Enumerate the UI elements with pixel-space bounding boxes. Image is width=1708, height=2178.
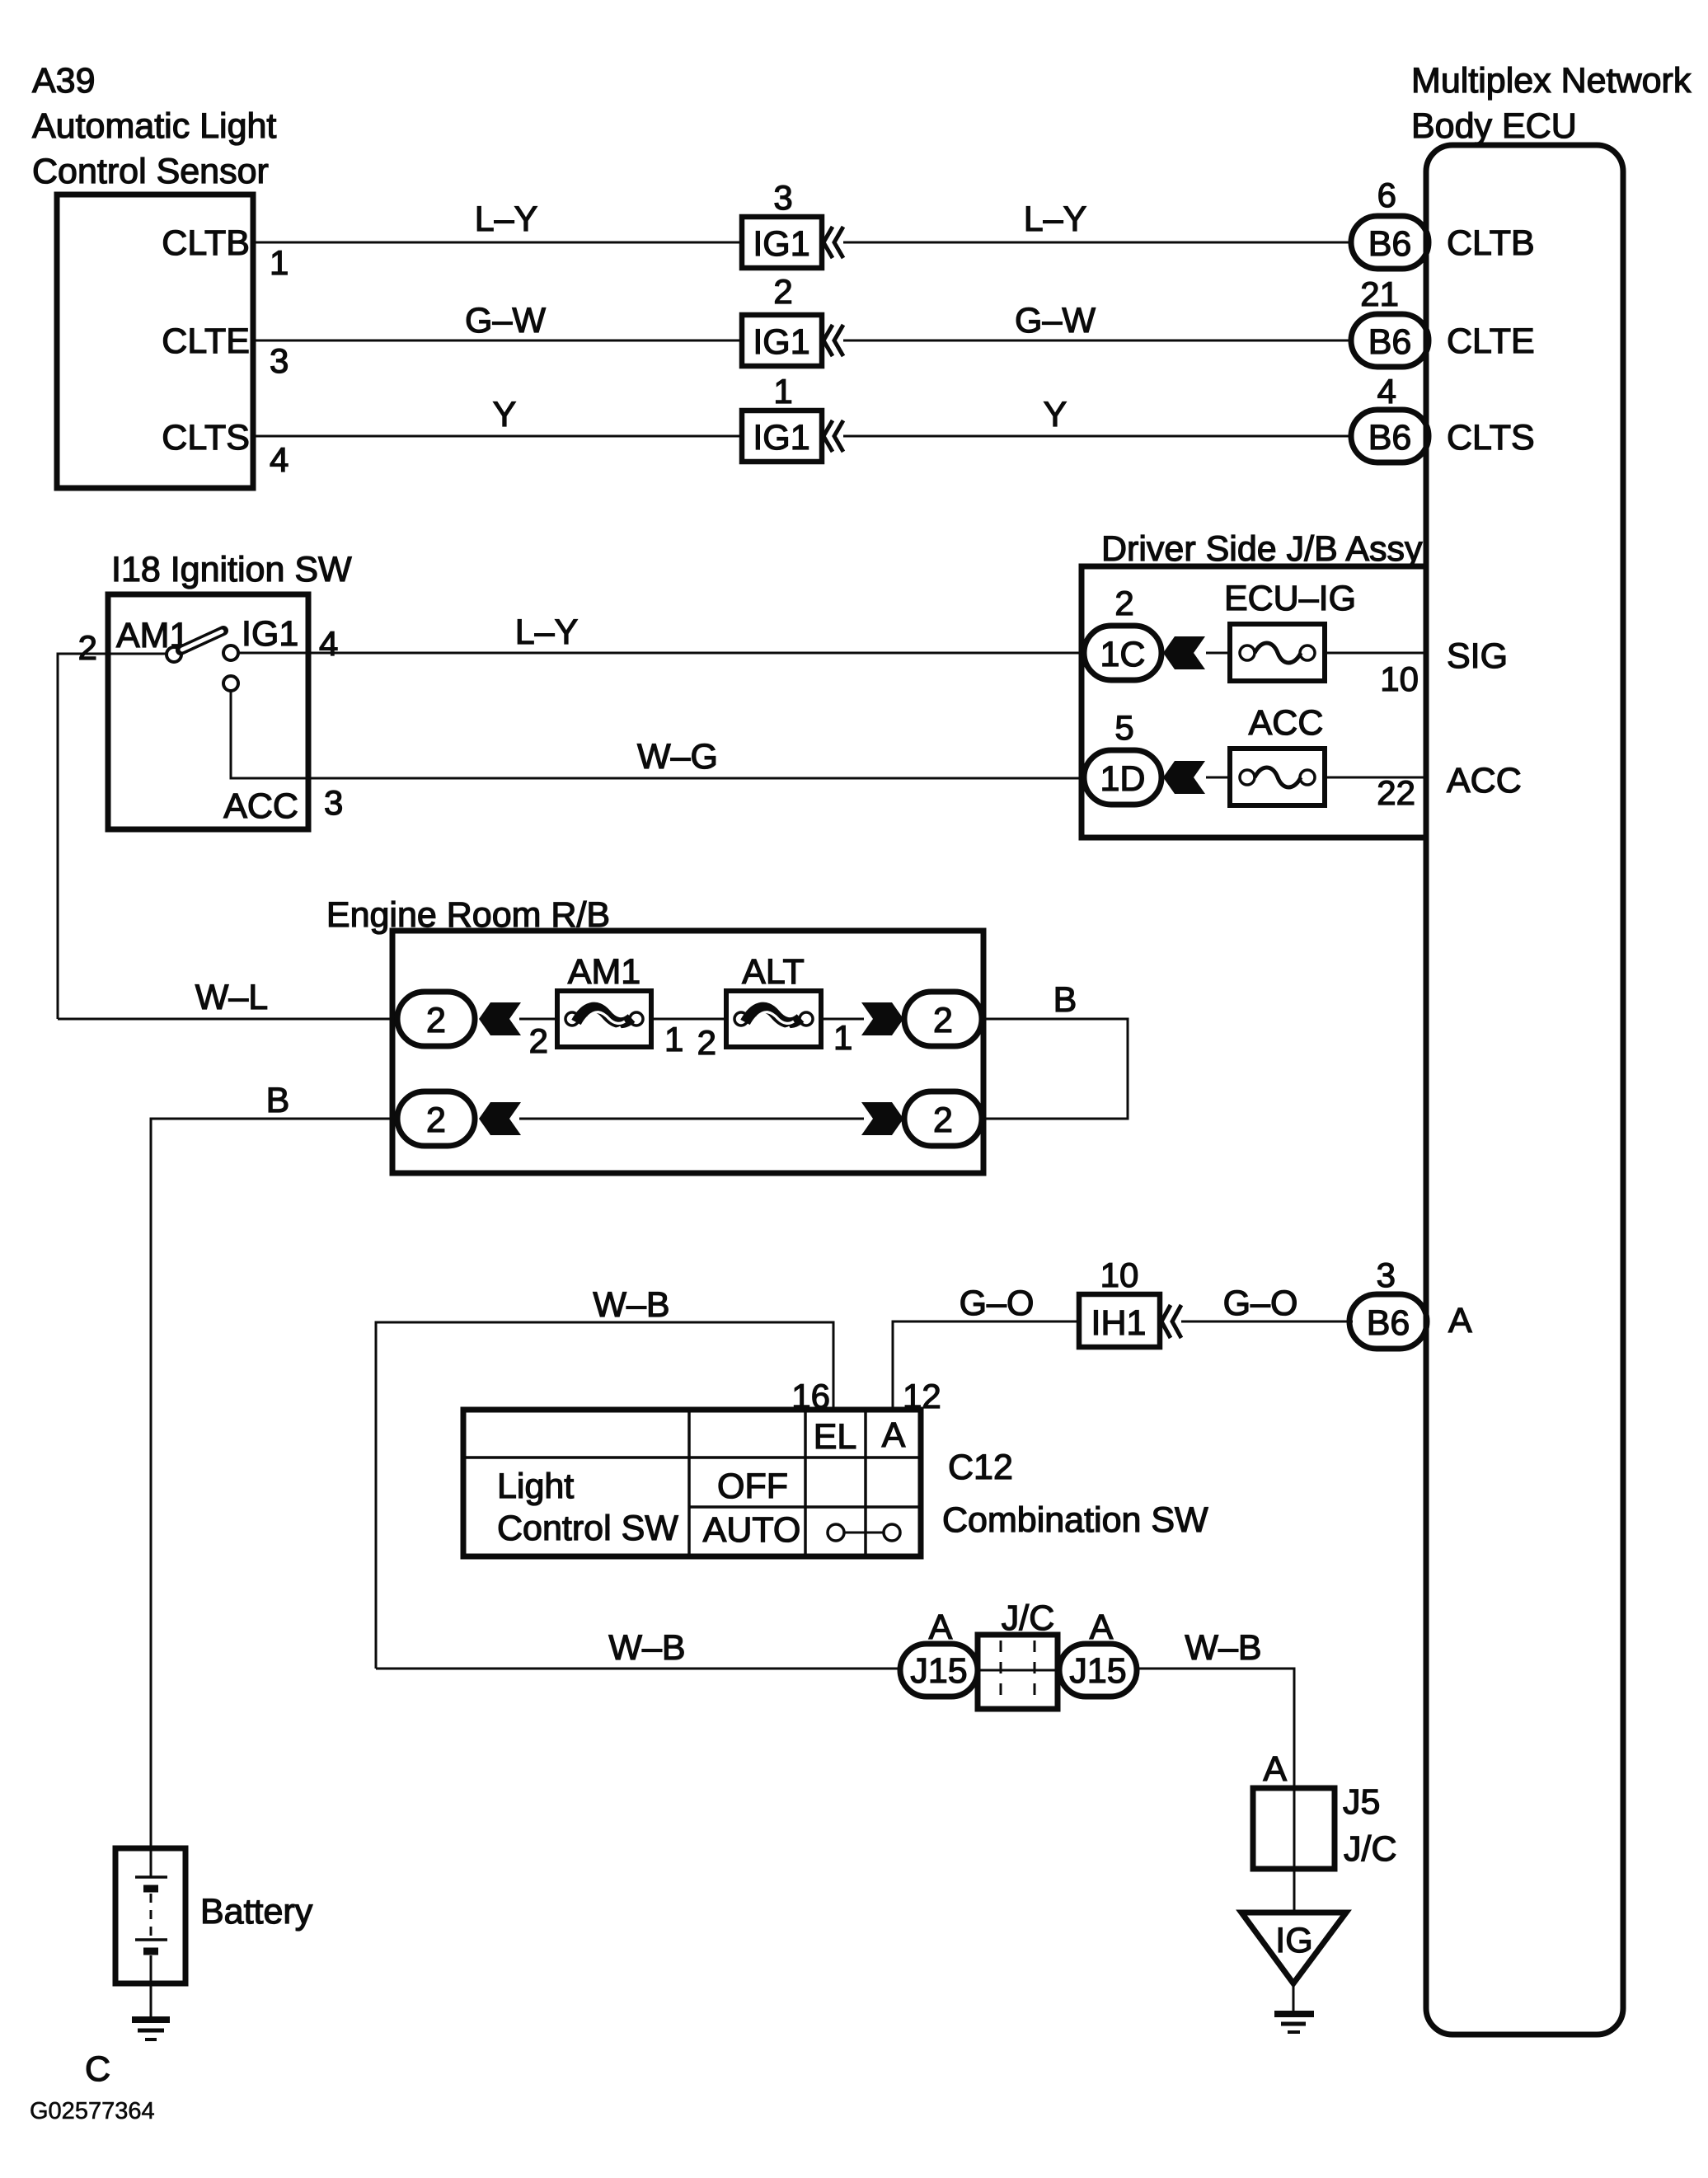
svg-text:2: 2 — [426, 1001, 446, 1040]
svg-text:G–W: G–W — [1015, 301, 1096, 340]
svg-text:2: 2 — [773, 272, 792, 311]
wire G-O from combination A to IH1 — [893, 1321, 1079, 1410]
arrow into 1C — [1163, 636, 1205, 669]
svg-text:J/C: J/C — [1344, 1829, 1397, 1869]
connector IH1 pin 10 — [1079, 1294, 1160, 1347]
switch lever — [181, 631, 223, 650]
arrow into left 2 row1 — [479, 1002, 521, 1035]
fuse ECU-IG — [1230, 624, 1325, 681]
svg-text:Light: Light — [497, 1467, 574, 1506]
svg-text:2: 2 — [1114, 584, 1133, 622]
footer figure number G02577364 — [30, 2098, 155, 2124]
wire fuse to ECU ACC pin 22 — [1325, 777, 1426, 779]
svg-text:4: 4 — [1377, 372, 1396, 411]
svg-text:CLTB: CLTB — [162, 223, 250, 263]
svg-text:Y: Y — [493, 395, 517, 434]
battery — [115, 1848, 185, 1983]
svg-text:L–Y: L–Y — [515, 613, 579, 652]
svg-text:2: 2 — [933, 1001, 953, 1040]
svg-text:IG1: IG1 — [242, 614, 298, 654]
svg-text:2: 2 — [933, 1101, 953, 1140]
ground triangle IG — [1241, 1913, 1346, 1983]
connector 2 row2 right — [904, 1091, 982, 1146]
svg-text:21: 21 — [1360, 275, 1399, 313]
svg-text:5: 5 — [1114, 708, 1133, 747]
wire ACC contact down and W-G to 1D — [231, 691, 1085, 778]
pin 16 and 12 labels — [791, 1377, 941, 1415]
wire row2 across R/B — [519, 1118, 864, 1120]
svg-text:Battery: Battery — [200, 1892, 313, 1932]
fuse ACC — [1230, 749, 1325, 805]
svg-text:3: 3 — [270, 341, 289, 380]
svg-text:W–G: W–G — [637, 737, 718, 777]
svg-text:ALT: ALT — [742, 952, 805, 992]
title block A39 Automatic Light Control Sensor — [32, 61, 276, 191]
wire W-B lower run to J15 — [376, 1668, 902, 1670]
svg-text:4: 4 — [270, 440, 289, 479]
wire AM1 to ALT — [651, 1018, 726, 1021]
svg-text:AUTO: AUTO — [703, 1510, 801, 1550]
svg-text:I18 Ignition SW: I18 Ignition SW — [111, 550, 352, 589]
wire W-B J15 to J5 — [1137, 1669, 1294, 1788]
footer C label — [85, 2049, 110, 2089]
svg-text:G–O: G–O — [1223, 1284, 1298, 1323]
svg-text:ECU–IG: ECU–IG — [1224, 579, 1356, 618]
svg-text:2: 2 — [529, 1021, 548, 1060]
svg-text:W–B: W–B — [608, 1628, 685, 1668]
svg-text:3: 3 — [1377, 1256, 1396, 1294]
connector B6 pin 3 A — [1349, 1294, 1427, 1349]
connector IG1 pin 3 — [742, 217, 822, 268]
connector 2 row2 left — [397, 1091, 475, 1146]
connector IG1 pin 1 — [742, 411, 822, 462]
svg-text:6: 6 — [1377, 176, 1396, 214]
fuse AM1 — [557, 991, 651, 1047]
svg-text:2: 2 — [426, 1101, 446, 1140]
svg-text:IG1: IG1 — [753, 418, 809, 458]
wire arrow to ACC fuse — [1206, 777, 1230, 779]
connector 1D pin 5 — [1084, 750, 1161, 805]
svg-text:G02577364: G02577364 — [30, 2098, 155, 2124]
svg-text:Y: Y — [1044, 395, 1067, 434]
switch contact IG1 — [223, 645, 238, 660]
switch contact ACC — [223, 676, 238, 691]
junction J/C dashed box — [978, 1635, 1058, 1709]
svg-text:ACC: ACC — [223, 786, 298, 826]
connector 1C pin 2 — [1084, 626, 1161, 680]
svg-text:Automatic Light: Automatic Light — [32, 106, 276, 146]
arrow into right 2 row2 — [861, 1102, 903, 1135]
Driver Side J/B Assy box — [1082, 566, 1426, 838]
svg-text:B: B — [1053, 980, 1077, 1020]
svg-text:CLTS: CLTS — [162, 418, 250, 458]
ground IG — [1274, 2011, 1314, 2017]
svg-text:IG1: IG1 — [753, 322, 809, 362]
arrow into right 2 row1 — [861, 1002, 903, 1035]
arrow into left 2 row2 — [479, 1102, 521, 1135]
svg-text:A: A — [1263, 1749, 1287, 1789]
svg-text:Driver Side J/B Assy: Driver Side J/B Assy — [1101, 529, 1423, 569]
svg-text:A: A — [1448, 1301, 1472, 1340]
wire W-L to Engine Room R/B — [58, 1018, 397, 1021]
svg-text:B6: B6 — [1368, 224, 1412, 264]
svg-text:2: 2 — [78, 628, 97, 667]
svg-text:A39: A39 — [32, 61, 96, 101]
Driver Side J/B Assy title — [1101, 529, 1423, 569]
svg-text:Control SW: Control SW — [497, 1509, 678, 1548]
wire CLTB L-Y left segment — [253, 242, 742, 244]
title Multiplex Network Body ECU — [1411, 61, 1692, 146]
svg-text:J15: J15 — [1069, 1651, 1126, 1691]
switch contact AM1 — [167, 647, 181, 662]
wire IG triangle to ground — [1293, 1983, 1295, 2014]
svg-text:22: 22 — [1377, 773, 1415, 812]
svg-text:3: 3 — [773, 178, 792, 217]
connector J15 right pin A — [1059, 1644, 1137, 1697]
wire ignition pin2 to W-L vertical — [108, 653, 167, 655]
junction J5 J/C box pin A — [1263, 1749, 1287, 1789]
wire CLTB L-Y right segment — [843, 242, 1353, 244]
combination switch C12 table — [463, 1410, 921, 1556]
svg-text:10: 10 — [1100, 1256, 1139, 1294]
wire CLTS Y left segment — [253, 435, 742, 438]
ECU U1 Multiplex Network Body ECU outline — [1426, 145, 1623, 2035]
svg-text:2: 2 — [697, 1023, 716, 1062]
wire arrow to AM1 fuse — [519, 1018, 557, 1021]
svg-text:B: B — [266, 1081, 290, 1120]
wire G-O IH1 to B6 — [1181, 1321, 1353, 1323]
fuse ALT — [726, 991, 821, 1047]
wire ALT to arrow — [821, 1018, 864, 1021]
svg-text:IG1: IG1 — [753, 224, 809, 264]
arrow into 1D — [1163, 761, 1205, 794]
svg-text:W–B: W–B — [1185, 1628, 1261, 1668]
svg-text:CLTE: CLTE — [162, 322, 250, 361]
svg-text:CLTB: CLTB — [1447, 223, 1535, 263]
wire fuse to ECU SIG pin 10 — [1325, 652, 1426, 655]
svg-text:A: A — [882, 1415, 906, 1455]
connector J15 left pin A — [900, 1644, 978, 1697]
svg-text:J5: J5 — [1343, 1782, 1380, 1822]
svg-text:3: 3 — [324, 783, 343, 822]
wire L-Y ignition IG1 pin4 to 1C — [239, 652, 1085, 655]
wire CLTE G-W right segment — [843, 340, 1353, 342]
svg-text:Combination SW: Combination SW — [942, 1500, 1208, 1540]
svg-text:CLTE: CLTE — [1447, 322, 1535, 361]
wire CLTS Y right segment — [843, 435, 1353, 438]
svg-text:B6: B6 — [1367, 1303, 1410, 1343]
svg-text:L–Y: L–Y — [1024, 199, 1087, 239]
svg-text:EL: EL — [814, 1417, 857, 1457]
wire arrow to ECU-IG fuse — [1206, 652, 1230, 655]
switch contacts AUTO row — [828, 1524, 844, 1541]
Engine Room R/B title — [326, 895, 610, 935]
wire CLTE G-W left segment — [253, 340, 742, 342]
svg-text:B6: B6 — [1368, 418, 1412, 458]
ignition switch I18 box — [108, 594, 308, 829]
svg-text:A: A — [929, 1608, 953, 1647]
svg-text:IH1: IH1 — [1091, 1303, 1147, 1343]
ignition switch I18 title — [111, 550, 352, 589]
svg-text:J/C: J/C — [1002, 1598, 1055, 1638]
svg-text:G–O: G–O — [960, 1284, 1035, 1323]
wire B loop right side — [982, 1019, 1128, 1119]
svg-text:C: C — [85, 2049, 110, 2089]
connector B6 pin 21 CLTE — [1351, 314, 1429, 367]
connector 2 row1 left — [397, 992, 475, 1046]
Engine Room R/B box — [392, 931, 983, 1173]
svg-text:Multiplex Network: Multiplex Network — [1411, 61, 1692, 101]
svg-text:Body ECU: Body ECU — [1411, 106, 1577, 146]
svg-text:OFF: OFF — [717, 1467, 788, 1506]
svg-text:J15: J15 — [910, 1651, 967, 1691]
svg-text:1D: 1D — [1100, 759, 1146, 799]
svg-text:B6: B6 — [1368, 322, 1412, 362]
svg-text:1: 1 — [833, 1018, 852, 1057]
svg-text:A: A — [1090, 1608, 1114, 1647]
svg-text:C12: C12 — [948, 1448, 1013, 1487]
svg-text:1: 1 — [773, 372, 792, 411]
svg-text:W–B: W–B — [593, 1285, 669, 1325]
svg-text:L–Y: L–Y — [475, 199, 538, 239]
svg-text:ACC: ACC — [1447, 761, 1522, 800]
svg-text:1: 1 — [270, 243, 289, 282]
svg-text:W–L: W–L — [195, 978, 268, 1017]
wire B from row2 left to battery — [151, 1119, 397, 1848]
svg-text:AM1: AM1 — [568, 952, 640, 992]
svg-text:4: 4 — [319, 624, 338, 663]
svg-text:G–W: G–W — [465, 301, 546, 340]
svg-text:1C: 1C — [1100, 635, 1146, 674]
sensor A39 box — [57, 195, 253, 488]
ground battery — [132, 2016, 170, 2023]
svg-text:10: 10 — [1380, 660, 1419, 698]
svg-text:ACC: ACC — [1249, 703, 1324, 743]
connector IG1 pin 2 — [742, 315, 822, 366]
connector 2 row1 right — [904, 992, 982, 1046]
wire W-B top run — [376, 1322, 833, 1669]
svg-text:CLTS: CLTS — [1447, 418, 1535, 458]
svg-text:IG: IG — [1275, 1921, 1312, 1960]
connector B6 pin 4 CLTS — [1351, 410, 1429, 462]
connector B6 pin 6 CLTB — [1351, 216, 1429, 269]
svg-text:Control Sensor: Control Sensor — [32, 152, 269, 191]
svg-text:1: 1 — [664, 1020, 683, 1058]
svg-text:SIG: SIG — [1447, 636, 1508, 676]
